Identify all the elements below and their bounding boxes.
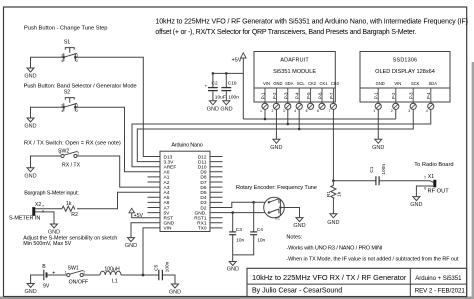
switch SW2 [58,148,81,168]
pin P-5 (CK2) [306,88,314,113]
junction VIN rail [142,274,145,277]
svg-text:D10: D10 [198,165,207,171]
wire D2 to encoder A [210,202,265,207]
svg-text:2: 2 [83,271,85,275]
svg-text:GND: GND [207,106,219,112]
connector X2 (S-Meter jack) [32,202,45,216]
header: schematic title text [155,17,468,36]
svg-text:ON/OFF: ON/OFF [69,279,89,285]
svg-text:S1: S1 [64,40,70,46]
svg-text:A0: A0 [164,170,170,176]
svg-text:CK0: CK0 [331,81,340,86]
ground (X2) [51,224,58,228]
svg-text:A6: A6 [164,200,170,206]
svg-text:VIN: VIN [394,81,401,86]
wire encoder common to GND [280,208,299,218]
svg-text:ADAFRUIT: ADAFRUIT [280,58,309,64]
svg-text:RF OUT: RF OUT [428,189,450,195]
pin P-6 (CK1) [317,88,325,113]
svg-text:P-2: P-2 [391,92,396,99]
svg-text:SCL: SCL [297,81,306,86]
svg-text:2: 2 [391,109,393,113]
svg-text:SSD1306: SSD1306 [393,58,417,64]
svg-text:A5: A5 [164,195,170,201]
svg-text:P-2: P-2 [272,92,277,99]
svg-text:GND: GND [227,267,239,273]
svg-text:P-1: P-1 [261,92,266,99]
wire L1 to junction and C5 [121,274,159,276]
svg-text:D5: D5 [200,190,206,196]
capacitor C3 10n [229,213,244,262]
svg-text:-When in TX Mode, the IF value: -When in TX Mode, the IF value is not ad… [286,256,458,262]
wire X2 sleeve to GND [35,212,54,224]
svg-text:P-3: P-3 [409,92,414,99]
svg-text:VIN: VIN [164,226,173,232]
wire arduino GND pin to ground [131,223,160,238]
svg-text:3.3V: 3.3V [164,159,175,165]
svg-text:4: 4 [426,109,428,113]
svg-text:GND: GND [24,173,36,179]
wire S2 right to A0 [75,107,160,172]
svg-text:OLED DISPLAY 128x64: OLED DISPLAY 128x64 [375,69,435,75]
svg-text:Notes:: Notes: [286,235,302,241]
section si5351 [254,52,340,114]
svg-text:RX / TX: RX / TX [62,163,81,169]
pushbutton S1 [61,40,78,64]
section oled [360,52,450,114]
ground (C5) [172,284,179,288]
section titleblock [247,268,467,296]
svg-text:X1: X1 [428,174,434,180]
node +5V (supply) [232,53,247,119]
svg-text:S-METER IN: S-METER IN [9,215,40,221]
pin P-3 (SDA) [283,88,291,113]
capacitor C2 10uF [205,73,226,100]
pin P-1 (VIN) [260,88,268,113]
pin P-4 (SCL) [294,88,302,113]
svg-text:GND: GND [273,81,282,86]
svg-text:GND: GND [24,124,36,130]
svg-text:A2: A2 [164,180,170,186]
svg-text:D4: D4 [200,195,206,201]
wire SW2 left to GND [31,156,61,168]
pin P-3 (SCK) [408,88,416,113]
wire C5 to GND [163,275,175,284]
svg-text:10n: 10n [257,237,265,243]
connector X1 (RF OUT jack) [424,174,436,190]
svg-text:3: 3 [283,109,285,113]
svg-text:A4: A4 [164,190,170,196]
capacitor C4 10n [233,202,266,255]
inductor L1 100uH [100,267,121,285]
section SW2 [24,141,160,188]
svg-text:+5V: +5V [232,58,242,64]
svg-text:C1: C1 [369,166,375,172]
wire SW1 to L1 [83,274,100,276]
svg-text:10uF: 10uF [215,95,226,101]
svg-text:4: 4 [61,109,63,113]
svg-text:A7: A7 [164,205,170,211]
ground (S2) [27,118,34,122]
svg-text:D9: D9 [200,170,206,176]
svg-text:2: 2 [76,59,78,63]
svg-text:GND: GND [24,289,36,295]
svg-text:7: 7 [328,109,330,113]
svg-text:T: T [42,204,44,208]
wire oled GND pin to ground [377,109,379,139]
svg-text:Min 500mV, Max 5V: Min 500mV, Max 5V [23,241,71,247]
svg-text:GND: GND [270,145,282,151]
svg-text:10n: 10n [236,237,244,243]
svg-text:CK2: CK2 [308,81,317,86]
svg-text:GND: GND [220,106,232,112]
wire +5V rail to caps [213,72,243,74]
svg-text:4: 4 [61,59,63,63]
svg-text:Si5351 MODULE: Si5351 MODULE [273,69,316,75]
svg-text:1: 1 [373,109,375,113]
svg-text:2: 2 [271,109,273,113]
resistor R1 1k [326,181,343,214]
svg-text:A1: A1 [164,175,170,181]
section encoder [210,185,317,273]
svg-text:TX0: TX0 [198,226,207,232]
svg-text:P-1: P-1 [374,92,379,99]
svg-text:D13: D13 [164,154,173,160]
svg-text:R2: R2 [71,212,78,218]
svg-text:1: 1 [65,271,67,275]
svg-text:Arduino + Si5351: Arduino + Si5351 [415,275,462,282]
svg-text:SW1: SW1 [68,266,79,272]
svg-text:P-3: P-3 [283,92,288,99]
junction RF node [332,179,335,182]
battery B 9V [42,264,55,289]
svg-text:4: 4 [294,109,296,113]
svg-text:GND.: GND. [195,210,207,216]
resistor R2 1k [62,201,78,218]
svg-text:SDA: SDA [429,81,438,86]
svg-text:D12: D12 [198,154,207,160]
svg-text:D8: D8 [200,175,206,181]
capacitor C19 100n [221,73,239,100]
wire SW2 right to A3 [77,156,160,187]
module U1 ADAFRUIT Si5351 [254,52,340,103]
svg-text:P-6: P-6 [318,92,323,99]
pin P-1 (GND) [373,88,381,113]
capacitor C5 100n [153,261,170,280]
svg-text:GND: GND [327,220,339,226]
section power [24,261,181,295]
svg-text:GND: GND [376,81,385,86]
section arduino [125,143,223,275]
svg-text:By Julio Cesar - CesarSound: By Julio Cesar - CesarSound [252,287,342,295]
svg-text:2: 2 [77,152,79,156]
svg-text:6: 6 [317,109,319,113]
wire CK0 to RF junction [332,109,334,180]
svg-text:S2: S2 [64,90,70,96]
svg-text:1: 1 [76,104,78,108]
section rfout [326,162,454,226]
section S2 [24,84,160,172]
svg-text:D11: D11 [198,159,207,165]
wire S2 left to GND [31,107,64,118]
svg-text:AREF: AREF [164,165,177,171]
svg-text:RST: RST [164,216,174,222]
ground (SW2) [27,168,34,172]
svg-text:SDA: SDA [285,81,294,86]
svg-text:SCK: SCK [411,81,420,86]
rotary encoder EC [264,197,285,221]
wire S1 right to D13 [75,57,160,156]
svg-text:+: + [205,85,208,90]
pin P-2 (GND) [271,88,279,113]
svg-text:9V: 9V [43,284,50,290]
svg-text:10kHz to 225MHz VFO RX / TX /: 10kHz to 225MHz VFO RX / TX / RF Generat… [252,273,407,282]
section 5vtop [205,53,247,119]
svg-text:+: + [52,271,55,277]
svg-text:GND: GND [125,243,137,249]
wire SDA net (AREF row to si SDA and oled SDA) [132,109,431,166]
section notes [286,235,458,263]
svg-text:GND: GND [24,74,36,80]
svg-text:GND: GND [410,202,422,208]
module U2 SSD1306 OLED display [360,52,450,103]
wire si GND pin to ground [275,109,277,139]
svg-text:C4: C4 [257,227,263,233]
svg-text:GND: GND [293,223,305,229]
svg-text:Bargraph S-Meter input:: Bargraph S-Meter input: [24,190,79,196]
svg-text:2: 2 [76,109,78,113]
svg-text:1: 1 [76,54,78,58]
svg-text:RX1: RX1 [197,221,207,227]
svg-text:REV 2 - FEB/2021: REV 2 - FEB/2021 [415,288,466,295]
svg-text:To Radio Board: To Radio Board [414,162,453,168]
svg-text:P-4: P-4 [295,92,300,99]
IC Arduino Nano [160,143,210,232]
wire X1 sleeve to GND [416,186,433,197]
ground (C19) [223,101,230,105]
svg-text:VIN: VIN [263,81,270,86]
wire R2 to A4 [77,192,160,209]
ground (C2) [209,101,216,105]
junction C3 top [231,211,234,214]
svg-text:A3: A3 [164,185,170,191]
svg-text:3: 3 [61,104,63,108]
svg-text:1: 1 [59,151,61,155]
section smeter [9,190,160,247]
svg-text:P-5: P-5 [306,92,311,99]
ground (si5351) [273,139,280,143]
svg-text:1: 1 [260,109,262,113]
wire: left pin stubs [148,177,161,213]
ground (C3/C4) [229,262,236,266]
svg-text:10kHz to 225MHz VFO / RF Gener: 10kHz to 225MHz VFO / RF Generator with … [155,17,468,25]
ground (arduino) [128,238,135,242]
svg-text:RX / TX Switch: Open = RX (see: RX / TX Switch: Open = RX (see note) [24,141,121,147]
svg-text:100n: 100n [165,261,171,272]
wire +5V net (si VIN, oled VIN) [243,109,395,119]
wire arduino VIN to power rail [143,228,160,275]
ground (battery) [27,284,34,288]
wire C1 to X1 [379,180,430,182]
svg-text:5: 5 [306,109,308,113]
svg-text:RST1: RST1 [194,216,207,222]
switch SW1 ON/OFF [65,266,88,286]
svg-text:GND: GND [372,145,384,151]
svg-text:100n: 100n [381,164,387,175]
svg-text:1k: 1k [337,191,343,197]
svg-text:Rotary Encoder: Frequency Tune: Rotary Encoder: Frequency Tune [236,185,317,191]
svg-text:B: B [42,264,46,270]
svg-text:100n: 100n [228,95,239,101]
svg-text:Arduino Nano: Arduino Nano [171,143,202,149]
section buses [132,109,431,180]
ground (S1) [27,68,34,72]
svg-text:Push Button - Change Tune Step: Push Button - Change Tune Step [24,26,107,32]
title block table [247,268,467,296]
svg-text:offset (+ or -), RX/TX Selecto: offset (+ or -), RX/TX Selector for QRP … [155,28,416,36]
pin P-7 (CK0) [328,88,336,113]
capacitor C1 100n [369,164,387,186]
svg-text:P-7: P-7 [329,92,334,99]
svg-text:T: T [424,176,426,180]
node +5V (arduino) [132,210,160,218]
svg-text:X2: X2 [35,202,41,208]
svg-text:D3: D3 [200,200,206,206]
svg-text:3: 3 [61,54,63,58]
svg-text:C19: C19 [228,80,237,86]
svg-text:D2: D2 [200,205,206,211]
svg-text:Push Button: Band Selector / G: Push Button: Band Selector / Generator M… [24,84,137,90]
wire GND. row to encoder B [210,212,265,214]
svg-text:-Works with UNO R3 / NANO / P: -Works with UNO R3 / NANO / PRO MINI [286,245,383,251]
ground (R1) [330,214,337,218]
svg-text:GND: GND [164,221,175,227]
wire: right pin stubs [210,157,223,228]
svg-text:L1: L1 [112,279,118,285]
svg-text:EC: EC [275,217,280,221]
svg-text:D6: D6 [200,185,206,191]
wire RF node to C1 [333,180,375,182]
pin P-2 (VIN) [391,88,399,113]
wire battery minus to GND [31,275,44,284]
pushbutton S2 [61,90,78,113]
svg-text:D7: D7 [200,180,206,186]
ground (X1) [413,197,420,201]
svg-text:3: 3 [408,109,410,113]
svg-text:C3: C3 [236,227,242,233]
junction C4 top [252,201,255,204]
pin P-4 (SDA) [426,88,434,113]
svg-text:5V: 5V [164,210,171,216]
svg-text:P-4: P-4 [426,92,431,99]
svg-text:CK1: CK1 [320,81,329,86]
section S1 [24,26,160,157]
wire S1 left to GND [31,57,64,68]
ground (encoder) [296,218,303,222]
wire battery to SW1 [48,274,67,276]
svg-text:+5V: +5V [134,213,144,219]
wire X2 tip to R2 [35,208,62,210]
svg-text:1k: 1k [66,201,72,207]
ground (oled) [375,139,382,143]
wire SCL net (3.3V row to si SCL and oled SCK) [137,109,413,161]
svg-text:GND: GND [169,290,181,296]
